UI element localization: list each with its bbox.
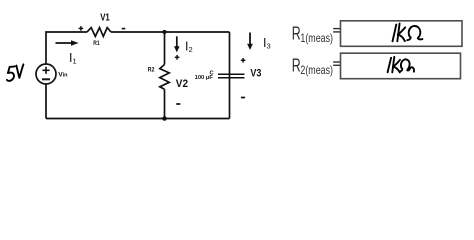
handwritten 1kOhm row1 [393, 23, 423, 41]
svg-text:I1: I1 [69, 51, 77, 66]
label minus of V1 [122, 28, 126, 30]
svg-text:V3: V3 [250, 68, 261, 80]
svg-text:100 µF: 100 µF [195, 75, 214, 81]
wire top-left horizontal [46, 32, 87, 64]
current arrow I1 [56, 40, 79, 46]
label minus of V2 [176, 103, 180, 105]
current arrow I2 [174, 36, 180, 52]
label plus of V1 [79, 26, 84, 31]
answer box 2 [341, 53, 461, 78]
answer box 1 [341, 21, 463, 47]
wire middle branch lower [164, 89, 166, 118]
label 5V handwritten [7, 64, 24, 81]
voltage source Vin circle [36, 64, 56, 84]
node junction bottom [162, 116, 167, 121]
svg-text:R1: R1 [93, 40, 100, 47]
label plus of V2 [175, 55, 180, 60]
node junction top [162, 30, 166, 34]
svg-text:V1: V1 [100, 13, 110, 24]
wire left below source [45, 84, 47, 119]
wire middle branch upper [164, 32, 166, 65]
svg-text:I3: I3 [263, 36, 271, 51]
resistor R2 [160, 65, 169, 90]
svg-text:V2: V2 [176, 78, 188, 90]
label plus of V3 [241, 58, 246, 63]
wire top-right [111, 31, 230, 33]
resistor R1 [87, 28, 111, 37]
source plus sign [42, 67, 49, 74]
equals sign row1 [333, 29, 340, 32]
current arrow I3 [247, 33, 253, 51]
svg-text:R2: R2 [148, 67, 155, 74]
handwritten 1kOhm row2 [388, 57, 414, 73]
capacitor C plates [218, 74, 245, 77]
svg-text:I2: I2 [185, 39, 193, 54]
svg-text:2(meas): 2(meas) [300, 64, 333, 77]
svg-text:1(meas): 1(meas) [300, 32, 333, 45]
source minus sign [42, 78, 50, 80]
wire right branch [229, 32, 231, 119]
label minus of V3 [241, 97, 245, 99]
equals sign row2 [333, 62, 340, 65]
svg-text:Vin: Vin [58, 71, 68, 78]
wire bottom [46, 118, 230, 120]
